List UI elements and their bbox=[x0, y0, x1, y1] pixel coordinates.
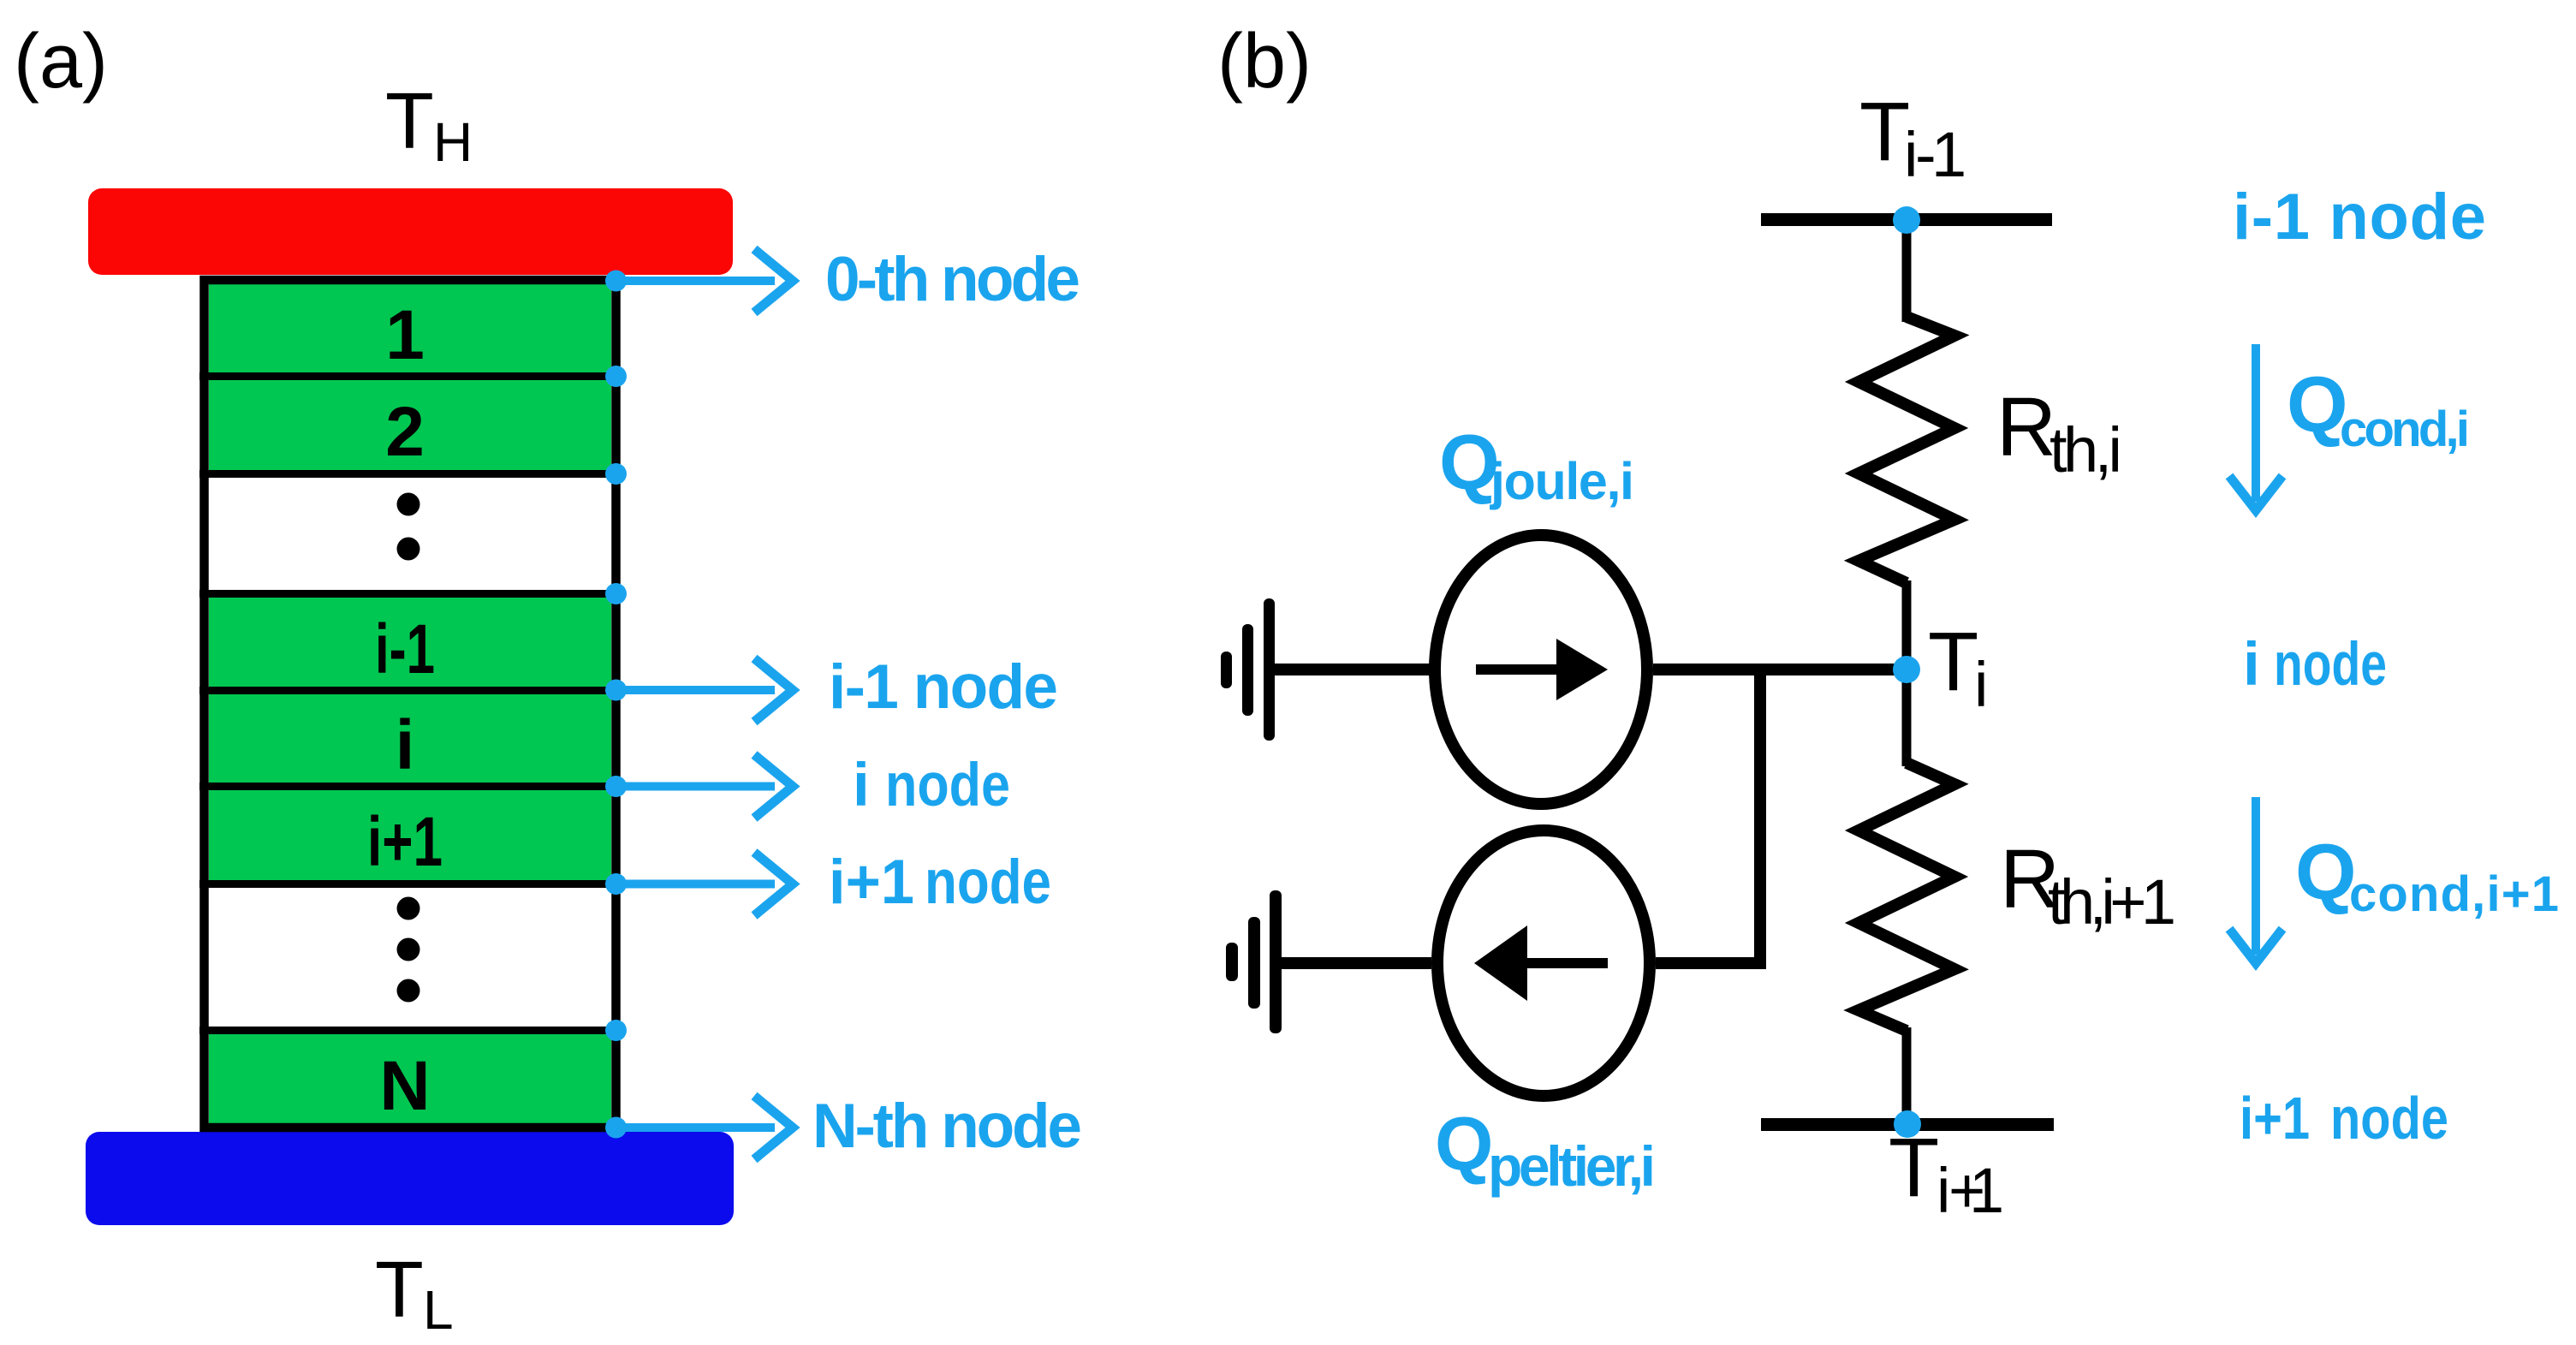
svg-text:th,i+1: th,i+1 bbox=[2048, 866, 2176, 937]
svg-text:i: i bbox=[396, 706, 415, 784]
svg-text:T: T bbox=[375, 1245, 424, 1334]
svg-text:cond,i: cond,i bbox=[2340, 402, 2470, 457]
svg-text:i-1: i-1 bbox=[375, 610, 435, 688]
svg-text:cond,i+1: cond,i+1 bbox=[2349, 866, 2559, 922]
svg-text:i: i bbox=[1974, 649, 1988, 720]
svg-text:T: T bbox=[385, 76, 434, 165]
svg-text:peltier,i: peltier,i bbox=[1488, 1134, 1656, 1198]
svg-text:joule,i: joule,i bbox=[1490, 452, 1634, 510]
svg-text:N-th node: N-th node bbox=[812, 1092, 1082, 1161]
svg-text:inode: inode bbox=[853, 752, 1010, 819]
svg-text:2: 2 bbox=[385, 393, 425, 471]
svg-text:inode: inode bbox=[2243, 631, 2387, 699]
svg-text:i-1 node: i-1 node bbox=[829, 652, 1058, 722]
svg-text:Q: Q bbox=[2287, 361, 2348, 449]
svg-text:N: N bbox=[379, 1047, 430, 1125]
svg-text:H: H bbox=[433, 111, 473, 173]
svg-text:L: L bbox=[423, 1279, 454, 1341]
svg-text:R: R bbox=[1996, 380, 2056, 473]
svg-text:T: T bbox=[1889, 1121, 1939, 1214]
svg-text:Q: Q bbox=[1435, 1101, 1493, 1186]
svg-text:i+1node: i+1node bbox=[829, 848, 1051, 917]
svg-text:T: T bbox=[1859, 85, 1910, 178]
svg-text:T: T bbox=[1928, 615, 1978, 708]
svg-text:(a): (a) bbox=[14, 19, 108, 104]
svg-text:i+1node: i+1node bbox=[2240, 1085, 2448, 1152]
svg-text:1: 1 bbox=[385, 296, 425, 374]
svg-text:(b): (b) bbox=[1217, 19, 1312, 104]
svg-text:i+1: i+1 bbox=[367, 803, 443, 881]
svg-text:i-1: i-1 bbox=[1904, 119, 1966, 190]
svg-text:th,i: th,i bbox=[2049, 414, 2122, 485]
svg-text:i-1 node: i-1 node bbox=[2233, 181, 2486, 253]
svg-text:i+1: i+1 bbox=[1936, 1155, 2004, 1226]
svg-text:0-th node: 0-th node bbox=[825, 245, 1080, 314]
svg-text:Q: Q bbox=[2295, 829, 2357, 916]
